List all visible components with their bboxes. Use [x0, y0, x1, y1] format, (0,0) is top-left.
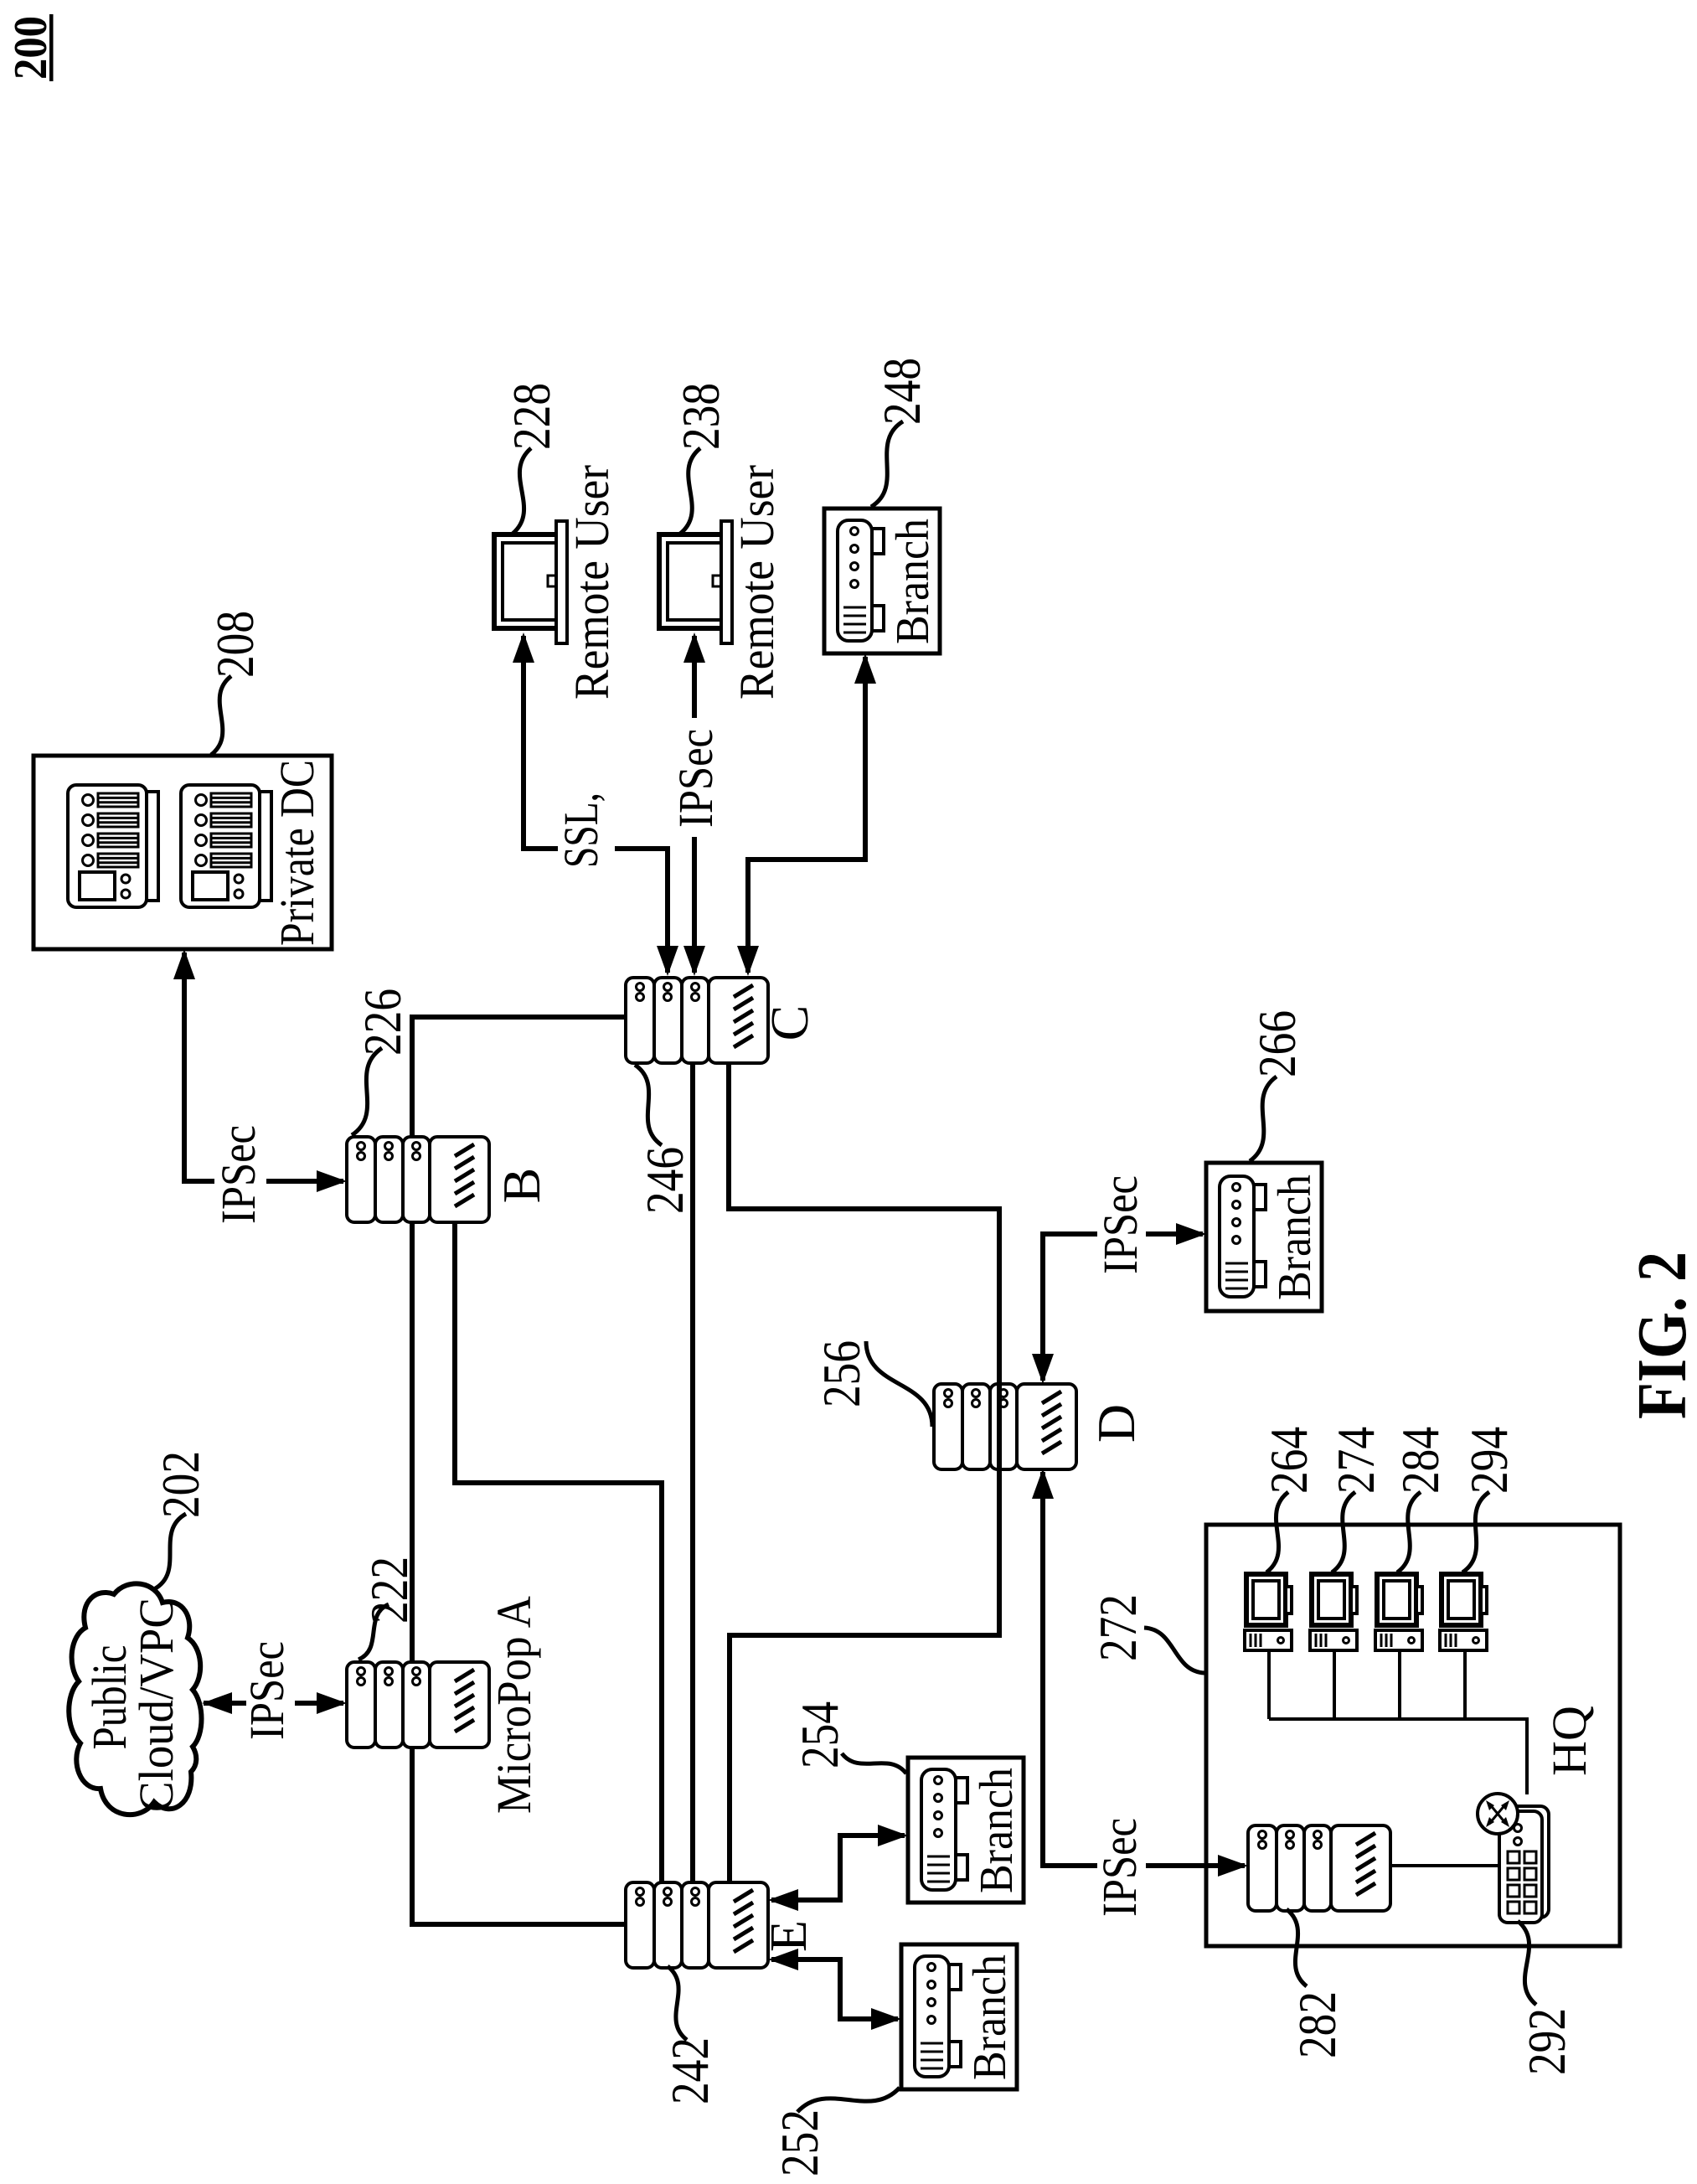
svg-text:B: B [492, 1168, 551, 1204]
leader 226-stackB [352, 1048, 382, 1135]
leader 248-branch [871, 421, 903, 507]
svg-text:FIG. 2: FIG. 2 [1623, 1252, 1697, 1419]
wire IPSec B-PrivateDC (double arrow) [184, 953, 214, 1181]
leader 266-branch [1250, 1077, 1277, 1161]
leader 208-PrivateDC [211, 676, 231, 755]
Private DC box [34, 756, 332, 949]
HQ computer 294 [1440, 1574, 1487, 1650]
HQ box [1206, 1525, 1620, 1946]
wire SSL C-RemoteUser228 (double arrow) [615, 849, 668, 973]
gateway stack E 242 [626, 1882, 768, 1968]
svg-text:248: 248 [872, 358, 931, 425]
svg-text:264: 264 [1259, 1427, 1318, 1494]
svg-text:200: 200 [5, 16, 57, 80]
svg-text:284: 284 [1390, 1427, 1450, 1494]
leader 202-cloud [154, 1514, 186, 1589]
wire IPSec cloud-A (double arrow) [204, 1701, 246, 1706]
leader 222-stackA [358, 1604, 389, 1660]
svg-text:266: 266 [1247, 1010, 1307, 1077]
svg-text:238: 238 [671, 383, 730, 450]
leader 246-stackC [635, 1065, 662, 1145]
svg-text:226: 226 [353, 989, 412, 1056]
HQ computer 274 [1310, 1574, 1357, 1650]
leader 282-stack [1287, 1909, 1307, 1986]
gateway stack C 246 [626, 978, 768, 1063]
server tower 1 (Private DC) [68, 785, 158, 907]
wire B-E [455, 1222, 662, 1882]
HQ computer 264 [1245, 1574, 1292, 1650]
wire E-Branch254 (double arrow) [771, 1835, 905, 1900]
svg-text:Branch: Branch [1269, 1175, 1321, 1300]
svg-text:274: 274 [1326, 1427, 1385, 1494]
gateway stack D 256 [934, 1384, 1076, 1469]
HQ switch symbol [1478, 1794, 1518, 1834]
leader 238-monitor [680, 448, 700, 534]
monitor Remote User 238 [659, 521, 732, 643]
svg-text:242: 242 [660, 2037, 720, 2104]
server tower 2 (Private DC) [181, 785, 271, 907]
svg-text:228: 228 [502, 383, 561, 450]
svg-text:D: D [1086, 1404, 1146, 1443]
wire A-E [412, 1748, 626, 1924]
svg-text:256: 256 [812, 1340, 871, 1407]
svg-text:Branch: Branch [964, 1954, 1016, 2080]
wire IPSec D-HQ282 (double arrow) [1043, 1472, 1097, 1866]
cloud Public Cloud/VPC [69, 1583, 201, 1815]
svg-text:IPSec: IPSec [1092, 1818, 1147, 1917]
Branch box 252 [901, 1944, 1017, 2089]
Branch box 248 [824, 509, 940, 653]
HQ computer 284 [1375, 1574, 1422, 1650]
wire A-B [410, 1222, 415, 1662]
svg-text:252: 252 [770, 2109, 829, 2176]
leader 284-pc [1397, 1492, 1421, 1572]
svg-text:272: 272 [1088, 1594, 1148, 1661]
gateway stack B 226 [347, 1137, 489, 1222]
svg-text:Private DC: Private DC [270, 760, 324, 946]
gateway stack 282 (HQ) [1248, 1825, 1390, 1911]
svg-text:294: 294 [1459, 1427, 1519, 1494]
svg-text:SSL,: SSL, [554, 793, 608, 868]
leader 274-pc [1332, 1492, 1355, 1572]
leader 294-pc [1462, 1492, 1489, 1572]
svg-text:E: E [761, 1920, 818, 1952]
wire HQ LAN bus [1269, 1650, 1527, 1794]
svg-text:MicroPop A: MicroPop A [487, 1596, 541, 1814]
leader 228-monitor [513, 448, 531, 534]
svg-text:202: 202 [151, 1451, 210, 1518]
leader 252-branch [797, 2088, 900, 2112]
wire C-E [690, 1063, 695, 1882]
wire IPSec C-RemoteUser238 (double arrow) [692, 837, 697, 973]
svg-text:Remote User: Remote User [730, 465, 784, 700]
leader 242-stackE [668, 1966, 687, 2040]
wire B-C [412, 1017, 626, 1137]
svg-text:C: C [760, 1005, 819, 1041]
svg-text:IPSec: IPSec [240, 1641, 294, 1740]
wire IPSec D-Branch266 (double arrow) [1043, 1234, 1097, 1381]
svg-text:IPSec: IPSec [211, 1125, 266, 1224]
wire C-D [729, 1063, 999, 1384]
leader 264-pc [1266, 1492, 1288, 1572]
gateway stack A (MicroPop A) 222 [347, 1662, 489, 1748]
svg-text:246: 246 [635, 1147, 694, 1214]
svg-text:IPSec: IPSec [1093, 1175, 1148, 1274]
leader 292-phone [1518, 1921, 1536, 2005]
svg-text:282: 282 [1287, 1991, 1347, 2058]
leader 254-branch [842, 1753, 906, 1774]
svg-text:Branch: Branch [971, 1768, 1023, 1893]
svg-text:Branch: Branch [887, 519, 939, 644]
wire C-Branch248 (double arrow) [748, 657, 865, 973]
wire C-E trunk passing through stack D [997, 1384, 1002, 1469]
svg-text:IPSec: IPSec [668, 729, 723, 828]
wire E-Branch252 (double arrow) [771, 1959, 898, 2019]
monitor Remote User 228 [494, 521, 567, 643]
svg-text:254: 254 [790, 1701, 849, 1768]
leader 256-stackD [866, 1341, 932, 1427]
svg-text:222: 222 [359, 1557, 419, 1624]
svg-text:292: 292 [1517, 2008, 1576, 2075]
HQ IP phone 292 [1499, 1806, 1549, 1923]
svg-text:Remote User: Remote User [565, 465, 619, 700]
Branch box 254 [908, 1758, 1024, 1903]
svg-text:Cloud/VPC: Cloud/VPC [129, 1598, 183, 1812]
wire HQ 282-phone [1390, 1864, 1499, 1867]
svg-text:208: 208 [205, 611, 265, 678]
Branch box 266 [1206, 1163, 1322, 1311]
svg-text:HQ: HQ [1542, 1706, 1596, 1776]
wire E-D [730, 1469, 999, 1882]
leader 272-HQbox [1144, 1628, 1204, 1673]
